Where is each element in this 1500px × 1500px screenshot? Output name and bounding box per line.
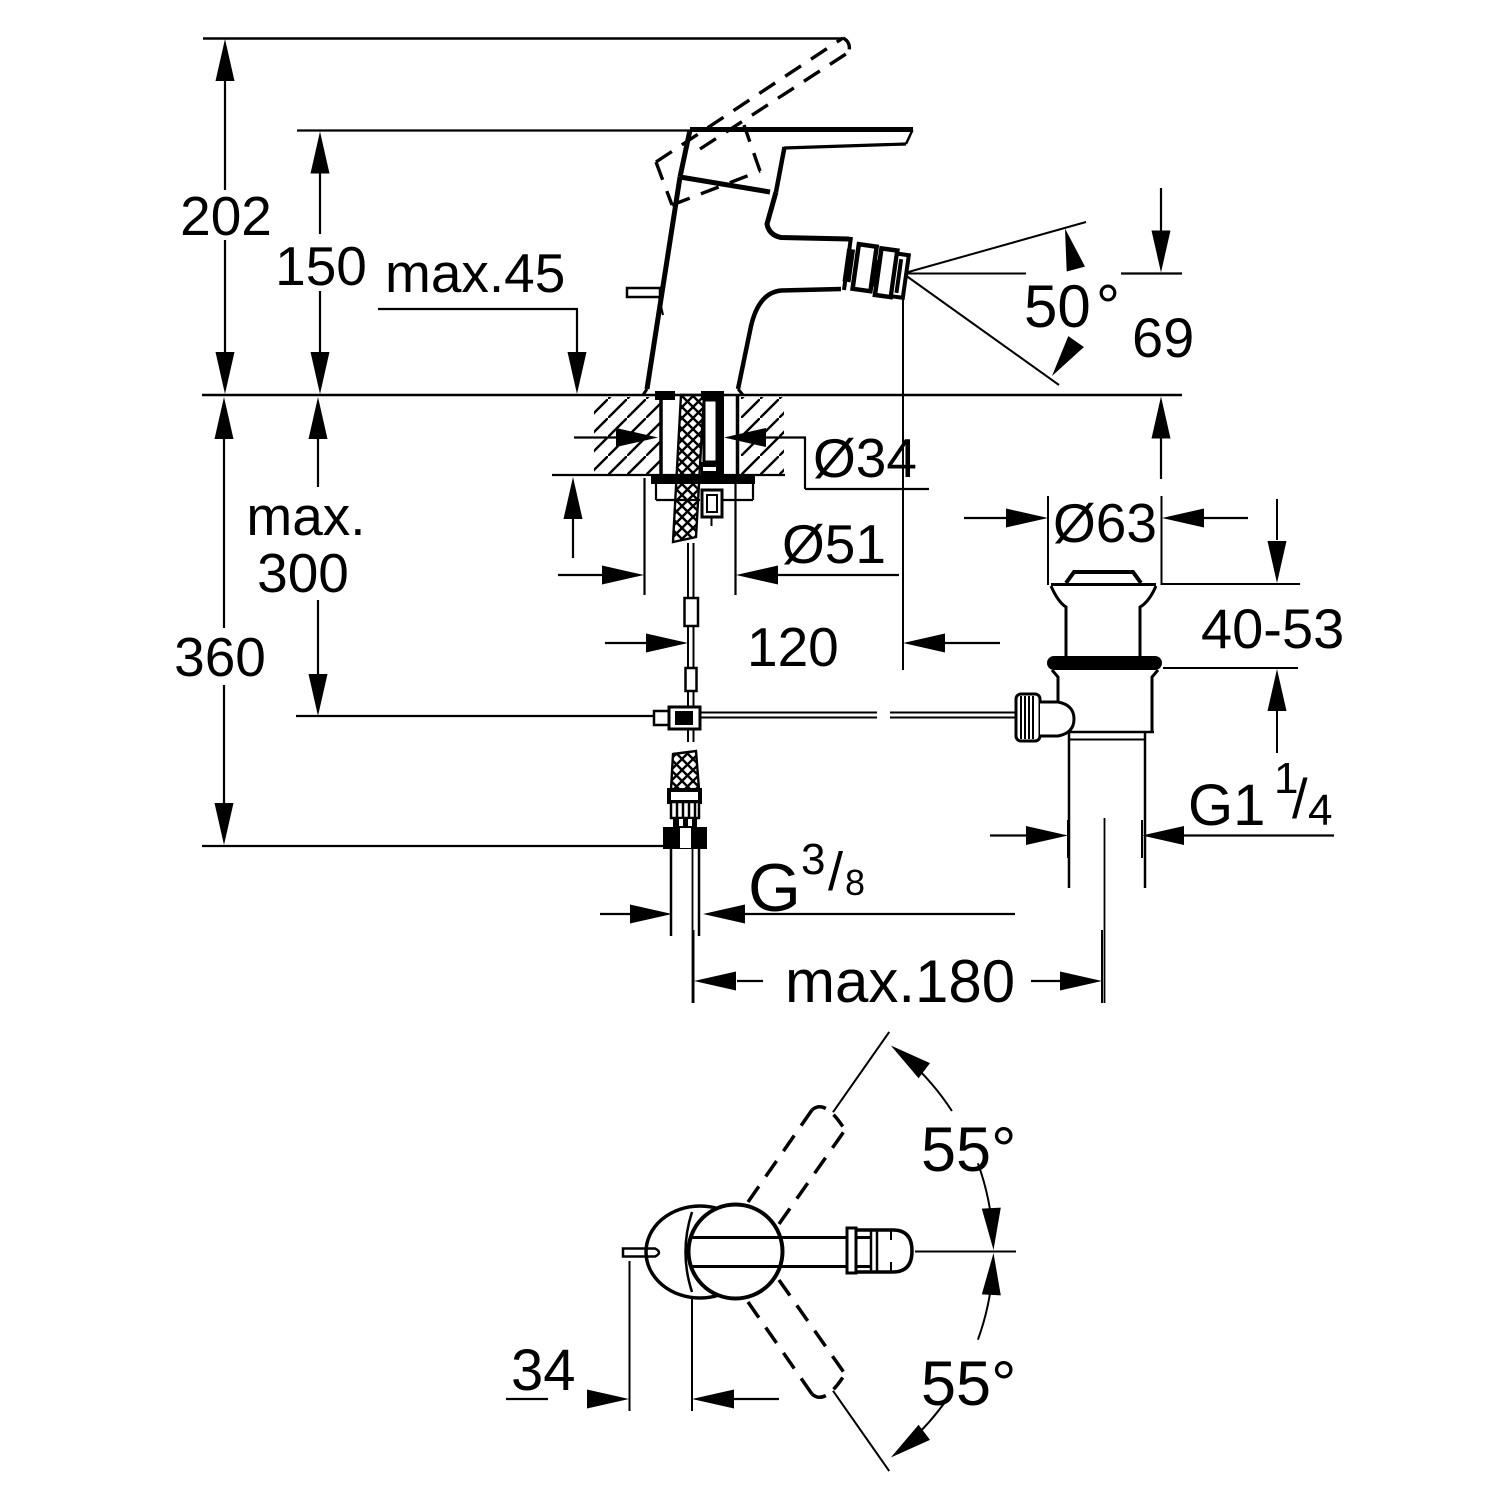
dim 150 (spout height) <box>311 132 330 174</box>
svg-text:Ø34: Ø34 <box>813 427 917 489</box>
wire 150 reference line (handle level) <box>297 129 690 131</box>
plan lever and aerator <box>690 1236 872 1239</box>
wire 360 lower reference (hose end level) <box>202 845 664 847</box>
hose connector and G3/8 nut <box>671 751 699 790</box>
svg-text:G1: G1 <box>1188 773 1265 838</box>
svg-text:150: 150 <box>275 235 367 297</box>
plan handle circle <box>689 1205 783 1299</box>
svg-text:max.45: max.45 <box>385 242 565 304</box>
valve knurled knob <box>1016 694 1040 741</box>
dim G3/8 thread <box>600 913 632 915</box>
aerator nozzle (knurled outlet) <box>841 243 909 299</box>
plan dashed lever positions <box>748 1110 812 1202</box>
svg-text:Ø51: Ø51 <box>782 513 886 575</box>
dim max.300 (rod length) <box>309 397 328 439</box>
countertop hatch right block <box>741 397 784 474</box>
dim diameter 51 (base) <box>643 478 645 595</box>
wire mounting plane line <box>202 394 1182 397</box>
faucet centerline lower <box>692 849 694 1003</box>
dim 360 (hose length) <box>215 397 234 439</box>
dim diameter 34 (hole) <box>574 436 616 438</box>
svg-text:202: 202 <box>180 185 272 247</box>
pull rod joint <box>654 711 669 725</box>
svg-text:/: / <box>1292 767 1308 830</box>
svg-text:120: 120 <box>747 616 839 678</box>
svg-text:max.180: max.180 <box>785 948 1015 1015</box>
svg-text:300: 300 <box>257 542 349 604</box>
threaded shank / braided hose upper <box>673 395 704 542</box>
supply pipe ends <box>670 849 673 936</box>
dim 40-53 (deck range) <box>1162 583 1300 585</box>
svg-text:max.: max. <box>246 485 365 547</box>
svg-text:34: 34 <box>511 1338 576 1403</box>
dashed handle raised position <box>656 38 843 162</box>
svg-text:360: 360 <box>174 626 266 688</box>
pull rod vertical <box>687 543 689 598</box>
mounting hole internals <box>659 395 663 474</box>
svg-text:40-53: 40-53 <box>1201 597 1344 660</box>
svg-text:3: 3 <box>801 835 825 884</box>
plan centerline <box>915 1251 1016 1253</box>
plan crescent arc <box>686 1212 693 1292</box>
valve centerline <box>1104 818 1106 1003</box>
dim 50 degree spray angle <box>903 222 1086 274</box>
svg-text:G: G <box>748 850 801 926</box>
wire countertop underside line <box>552 474 785 476</box>
svg-text:69: 69 <box>1132 306 1194 369</box>
plan pull-rod pin <box>623 1249 659 1257</box>
fixing nut and washer <box>651 476 755 484</box>
dim 202 (overall height) <box>216 39 235 81</box>
dim 120 (spout reach) <box>605 642 646 644</box>
horizontal actuating rod <box>700 712 877 714</box>
svg-text:°: ° <box>1096 273 1120 340</box>
svg-text:8: 8 <box>845 862 865 903</box>
dim G1 1/4 thread <box>1067 820 1069 858</box>
wire top reference line (tip of raised handle level) <box>203 37 843 39</box>
faucet side tab (pull-rod knob) <box>627 288 660 297</box>
dim diameter 63 (valve flange) <box>1047 496 1049 585</box>
svg-text:4: 4 <box>1308 786 1332 835</box>
svg-text:Ø63: Ø63 <box>1053 492 1157 554</box>
svg-text:55°: 55° <box>921 1115 1016 1185</box>
dim 34 (plan offset) <box>629 1261 631 1411</box>
faucet body outline <box>690 127 913 132</box>
dim 55 degree swivel angles <box>833 1032 889 1112</box>
svg-text:50: 50 <box>1024 273 1091 340</box>
countertop hatch left block <box>594 397 660 474</box>
wire max300 lower reference (rod joint level) <box>296 715 655 717</box>
wire spout tip projection line <box>902 280 904 670</box>
dim 69 (outlet height) <box>1160 188 1162 231</box>
plan base oval <box>646 1206 754 1298</box>
dim max.180 (rod span) <box>693 930 695 1003</box>
svg-text:55°: 55° <box>921 1349 1016 1419</box>
pop-up waste valve body <box>1066 572 1141 583</box>
svg-text:/: / <box>828 842 843 902</box>
